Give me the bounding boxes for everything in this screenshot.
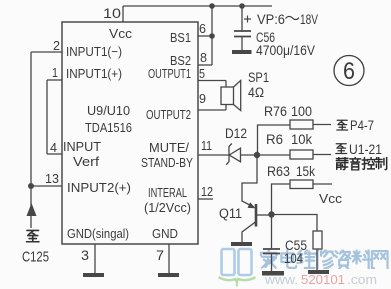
label to P4-7 xyxy=(337,118,374,133)
svg-text:Vcc: Vcc xyxy=(109,26,133,41)
svg-text:C125: C125 xyxy=(22,250,49,266)
diode D12 xyxy=(226,144,257,165)
node A junction xyxy=(254,152,260,158)
svg-text:P4-7: P4-7 xyxy=(350,118,374,133)
IC U9/U10 TDA1516 amplifier body xyxy=(62,22,198,244)
label to U1-21 xyxy=(336,142,382,157)
label R63 15k xyxy=(267,164,315,179)
ground under Q11 xyxy=(231,242,252,246)
svg-text:INPUT2(+): INPUT2(+) xyxy=(67,180,131,195)
ground pin 7 xyxy=(158,273,179,277)
svg-text:INTERAL: INTERAL xyxy=(148,185,187,200)
wire pin 5 to speaker xyxy=(198,81,226,88)
svg-text:GND: GND xyxy=(152,226,178,241)
capacitor C56 xyxy=(234,6,251,50)
svg-text:12: 12 xyxy=(201,184,213,199)
wire node B right to pull resistor xyxy=(272,215,318,232)
wire top supply rail xyxy=(123,5,272,7)
ground under pull resistor xyxy=(308,270,329,274)
wire pin 4 xyxy=(47,153,62,155)
wire pin 12 stub xyxy=(198,198,213,200)
node junction top rail / C56 xyxy=(239,3,245,9)
label C55 104 xyxy=(284,238,307,266)
node pin2/pin13 junction xyxy=(28,183,34,189)
svg-text:D12: D12 xyxy=(225,126,247,141)
transistor Q11 xyxy=(242,204,272,242)
label VP:6~18V xyxy=(257,12,318,27)
svg-text:9: 9 xyxy=(199,91,206,106)
wire pin2 vertical down to node xyxy=(30,52,32,186)
svg-text:4Ω: 4Ω xyxy=(248,85,264,100)
svg-text:10: 10 xyxy=(103,5,121,21)
wire pin 9 to speaker xyxy=(198,105,226,111)
capacitor C55 xyxy=(263,249,280,271)
svg-text:6: 6 xyxy=(343,58,355,85)
svg-text:11: 11 xyxy=(201,138,212,153)
wire pin 1 input1+ xyxy=(47,79,62,81)
emitter arrow of Q11 xyxy=(248,202,256,208)
svg-text:VP:6: VP:6 xyxy=(257,12,285,27)
svg-text:R6: R6 xyxy=(266,132,283,147)
svg-text:4: 4 xyxy=(50,140,57,155)
svg-text:INPUT1(−): INPUT1(−) xyxy=(66,44,122,59)
resistor R76 xyxy=(290,120,331,129)
wire node B to R63 xyxy=(272,184,291,215)
svg-text:15k: 15k xyxy=(296,164,315,179)
svg-text:Verf: Verf xyxy=(73,154,99,169)
svg-text:Vcc: Vcc xyxy=(319,191,343,206)
wire pin 6 BS1 xyxy=(198,35,212,37)
svg-text:5: 5 xyxy=(199,66,205,81)
wire pin 13 xyxy=(31,185,62,187)
svg-text:TDA1516: TDA1516 xyxy=(85,120,132,135)
circled 6 page marker xyxy=(334,56,364,86)
svg-text:1: 1 xyxy=(52,65,58,80)
svg-text:6: 6 xyxy=(199,21,206,36)
svg-text:OUTPUT1: OUTPUT1 xyxy=(148,66,191,81)
resistor R6 xyxy=(290,150,331,159)
svg-text:Q11: Q11 xyxy=(219,206,242,221)
wire down to C125 with arrow xyxy=(27,186,37,228)
svg-text:SP1: SP1 xyxy=(248,70,269,85)
wire pin 2 input1- xyxy=(31,51,62,53)
svg-text:18V: 18V xyxy=(300,12,318,27)
node junction top rail / BS vertical xyxy=(209,3,215,9)
ground under C56 xyxy=(232,50,252,54)
wire node A down to Q11 emitter xyxy=(242,155,257,207)
svg-text:(1/2Vcc): (1/2Vcc) xyxy=(144,200,191,215)
svg-text:GND(singal): GND(singal) xyxy=(67,226,129,241)
wire BS vertical xyxy=(211,6,213,65)
svg-text:10k: 10k xyxy=(291,132,312,147)
speaker SP1 xyxy=(221,81,241,111)
svg-text:3: 3 xyxy=(81,247,89,263)
svg-text:MUTE/: MUTE/ xyxy=(149,140,189,155)
label to C125 xyxy=(22,230,49,265)
wire pin 11 mute xyxy=(198,154,229,156)
svg-text:STAND-BY: STAND-BY xyxy=(141,155,193,170)
svg-text:7: 7 xyxy=(156,247,164,263)
label R76 100 xyxy=(264,104,312,119)
svg-text:OUTPUT2: OUTPUT2 xyxy=(146,107,191,122)
svg-text:R76: R76 xyxy=(264,104,287,119)
svg-text:U9/U10: U9/U10 xyxy=(87,103,130,118)
svg-text:BS1: BS1 xyxy=(170,30,191,45)
ground under C55 xyxy=(262,271,284,276)
node B junction xyxy=(268,211,274,217)
wire node B down to C55 xyxy=(271,215,273,249)
svg-text:R63: R63 xyxy=(267,164,290,179)
svg-text:13: 13 xyxy=(45,171,59,186)
svg-text:U1-21: U1-21 xyxy=(349,142,382,157)
svg-text:2: 2 xyxy=(53,38,60,53)
wire pin10 riser xyxy=(122,6,124,22)
svg-text:4700μ/16V: 4700μ/16V xyxy=(256,43,315,58)
resistor R63 xyxy=(290,180,332,189)
svg-text:8: 8 xyxy=(200,50,207,65)
svg-text:100: 100 xyxy=(291,104,312,119)
label SP1 4ohm xyxy=(248,70,269,100)
resistor (unlabeled pull-down) xyxy=(313,231,322,270)
wire pin1 to pin4 vertical xyxy=(46,80,48,154)
svg-text:INPUT1(+): INPUT1(+) xyxy=(66,66,122,81)
svg-text:520101: 520101 xyxy=(301,272,345,287)
wire pin 8 BS2 xyxy=(198,64,212,66)
wire pin 3 to ground xyxy=(94,244,96,273)
svg-text:.com: .com xyxy=(347,272,377,287)
ground pin 3 xyxy=(83,273,104,277)
label R6 10k xyxy=(266,132,312,147)
wire pin 7 to ground xyxy=(168,244,170,273)
svg-text:INPUT: INPUT xyxy=(63,139,101,154)
node junction pin6 xyxy=(209,33,215,39)
label mute control (Chinese) xyxy=(336,157,386,170)
wire node A to R6 xyxy=(260,154,290,156)
wire node A up to R76 xyxy=(258,125,291,155)
svg-text:104: 104 xyxy=(284,251,303,266)
